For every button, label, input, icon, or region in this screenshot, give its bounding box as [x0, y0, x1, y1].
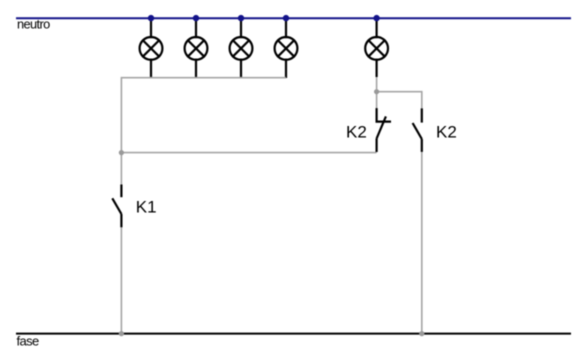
- svg-text:K2: K2: [436, 122, 457, 141]
- svg-text:neutro: neutro: [17, 17, 50, 32]
- svg-text:K1: K1: [136, 198, 157, 217]
- svg-text:K2: K2: [346, 122, 367, 141]
- svg-text:fase: fase: [17, 334, 40, 349]
